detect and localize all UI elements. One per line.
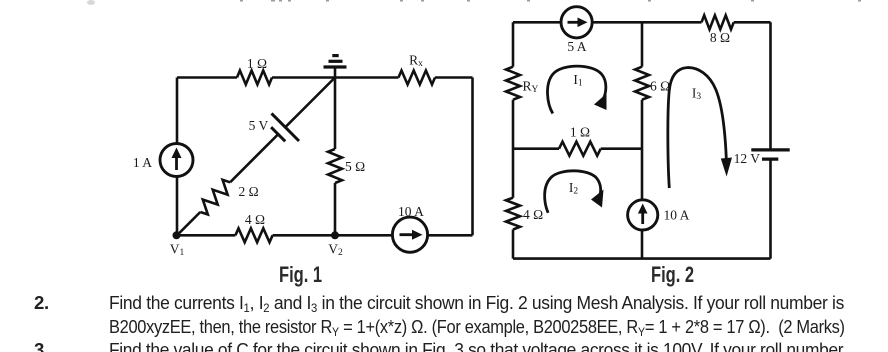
svg-text:Rx: Rx <box>409 53 423 70</box>
svg-text:12 V: 12 V <box>734 151 761 166</box>
svg-text:5 Ω: 5 Ω <box>345 159 365 174</box>
svg-text:1 A: 1 A <box>133 155 152 170</box>
svg-text:4 Ω: 4 Ω <box>523 207 543 222</box>
svg-text:I3: I3 <box>692 86 702 103</box>
svg-text:5 V: 5 V <box>249 118 269 133</box>
svg-text:RY: RY <box>523 79 539 96</box>
svg-text:4 Ω: 4 Ω <box>245 212 265 227</box>
svg-text:I1: I1 <box>573 72 583 89</box>
svg-text:1 Ω: 1 Ω <box>570 125 590 140</box>
svg-text:1 Ω: 1 Ω <box>247 56 267 71</box>
svg-text:8 Ω: 8 Ω <box>710 30 730 45</box>
svg-text:10 A: 10 A <box>664 208 690 223</box>
svg-text:10 A: 10 A <box>398 204 424 219</box>
svg-text:6 Ω: 6 Ω <box>650 79 670 94</box>
svg-text:V2: V2 <box>328 242 343 259</box>
svg-text:I2: I2 <box>569 180 579 197</box>
svg-text:5 A: 5 A <box>567 39 586 54</box>
svg-text:V1: V1 <box>170 242 185 259</box>
svg-text:2 Ω: 2 Ω <box>239 184 259 199</box>
